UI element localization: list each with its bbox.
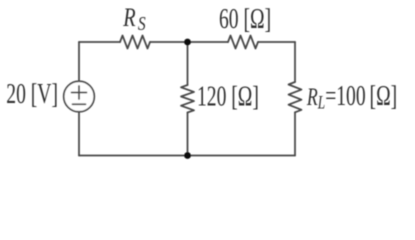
node B (bottom junction) <box>184 152 191 159</box>
label 120ohm <box>197 81 259 112</box>
source V1 plus <box>72 86 87 99</box>
node A (top junction) <box>184 39 191 46</box>
label RL=100ohm <box>306 81 397 113</box>
svg-text:RS: RS <box>122 3 145 34</box>
svg-text:20 [V]: 20 [V] <box>6 78 58 109</box>
resistor 60ohm <box>228 36 258 49</box>
wire right upper <box>294 42 296 82</box>
resistor RL <box>289 82 302 112</box>
svg-text:120 [Ω]: 120 [Ω] <box>197 81 259 112</box>
wire middle lower <box>187 113 189 156</box>
svg-text:RL=100 [Ω]: RL=100 [Ω] <box>306 81 397 113</box>
wire left upper <box>78 42 80 81</box>
wire top-middle segment <box>150 41 228 43</box>
source V1 minus <box>73 103 86 105</box>
wire left lower <box>78 112 80 155</box>
wire top-left segment <box>79 41 120 43</box>
wire top-right segment <box>258 41 295 43</box>
svg-text:60 [Ω]: 60 [Ω] <box>219 4 271 35</box>
wire bottom <box>79 155 295 157</box>
wire right lower <box>294 112 296 155</box>
label RS <box>122 3 145 34</box>
label 60ohm <box>219 4 271 35</box>
source V1 circle <box>64 81 95 112</box>
label 20V <box>6 78 58 109</box>
resistor 120ohm <box>181 85 194 113</box>
wire middle upper <box>187 42 189 85</box>
resistor RS <box>120 36 150 49</box>
